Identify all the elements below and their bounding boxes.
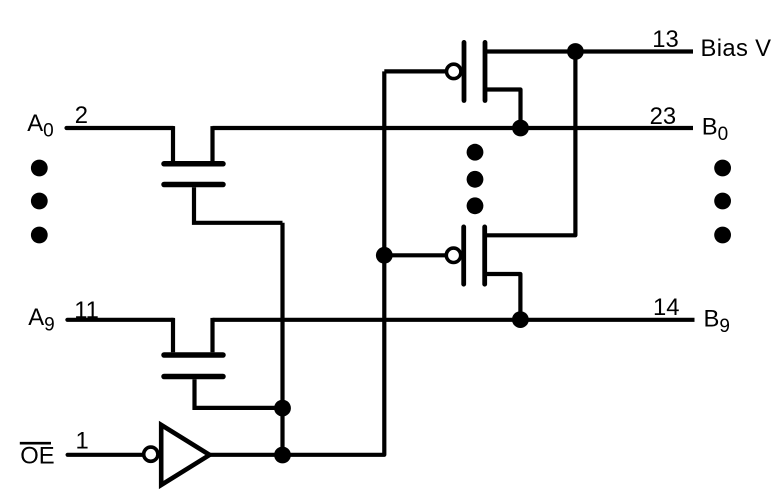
junction: feedback rail / Q4 gate — [376, 247, 393, 264]
wire: bias rail down to Q4 source — [485, 52, 576, 236]
junction: enable rail / inverter output — [274, 447, 291, 464]
junction: Q4 drain / B9 — [512, 311, 529, 328]
wire: enable rail vertical — [280, 223, 284, 455]
transistor Q2: NMOS pass gate A9-B9 — [164, 318, 223, 377]
svg-text:1: 1 — [76, 428, 89, 455]
bubble: Q3 gate inversion — [447, 64, 461, 78]
wire: inverter output / feedback rail up to Q3 gate level — [210, 71, 385, 454]
transistor Q4: PMOS bias pullup (B9) bars — [464, 227, 485, 284]
svg-text:11: 11 — [74, 297, 99, 324]
svg-text:B9: B9 — [704, 306, 730, 338]
svg-text:14: 14 — [653, 294, 679, 321]
junction: bias node — [567, 43, 584, 60]
wire: Q1 gate to enable rail — [194, 187, 283, 223]
svg-text:OE: OE — [20, 442, 54, 469]
ellipsis dots: bias pullup channels — [467, 144, 484, 214]
wire: Q3 source / Bias V lead (pin 13) — [485, 49, 693, 53]
wire: OE input lead — [68, 453, 143, 457]
ellipsis dots: B-side channels — [714, 160, 731, 244]
wire: Q4 drain to B9 — [485, 274, 521, 320]
svg-text:B0: B0 — [702, 114, 728, 146]
wire: Q4 gate — [384, 253, 445, 257]
overline of OE — [20, 442, 51, 445]
junction: Q2 gate / enable rail — [274, 400, 291, 417]
wire: A9 input lead (pin 11) — [67, 318, 173, 322]
svg-text:A9: A9 — [28, 304, 54, 336]
inverter U1 input bubble — [144, 447, 158, 461]
wire: Q3 gate — [384, 69, 445, 73]
transistor Q3: PMOS bias pullup (B0) bars — [464, 42, 485, 100]
transistor Q1: NMOS pass gate A0-B0 — [164, 126, 223, 184]
wire: A0 input lead (pin 2) — [67, 126, 174, 130]
ellipsis dots: A-side channels — [31, 160, 48, 244]
junction: Q3 drain / B0 — [512, 120, 529, 137]
bubble: Q4 gate inversion — [446, 248, 460, 262]
svg-text:A0: A0 — [27, 110, 53, 142]
wire: Q2 gate to enable rail — [195, 379, 283, 408]
svg-text:Bias V: Bias V — [701, 35, 772, 62]
wire: A9/B9 line through to pin 14 — [213, 318, 695, 322]
svg-text:2: 2 — [75, 102, 88, 129]
wire: A0/B0 line through to pin 23 — [213, 126, 694, 130]
inverter U1 triangle — [161, 425, 209, 485]
svg-text:23: 23 — [650, 103, 676, 130]
svg-text:13: 13 — [652, 26, 678, 53]
wire: Q3 drain to B0 — [485, 90, 521, 129]
